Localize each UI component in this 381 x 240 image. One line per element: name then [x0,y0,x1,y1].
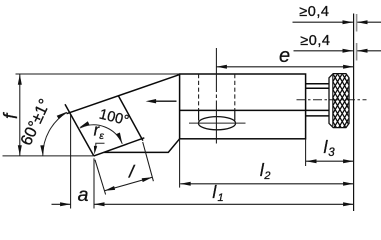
knurled knob outline [329,74,349,128]
hole wall left [198,111,200,121]
svg-text:e: e [279,45,290,67]
gap dim lower line right [357,50,381,52]
100deg arc arrow left [79,121,89,127]
tool body outline [180,74,306,139]
screw axis centerline [297,99,367,101]
cutting edge 60deg [65,104,94,156]
head top slanted edge [67,75,180,114]
body flat edge line [180,109,329,111]
a right extension line [93,158,95,208]
dimension f line [19,74,21,155]
l3 arrow right [343,159,354,163]
dimension l3 line [306,160,354,162]
a left extension line [70,115,72,209]
f arrow up [18,74,22,85]
hole hidden line left [198,74,200,110]
dimension l1 line [94,203,354,205]
r-epsilon arrow [94,146,97,155]
f arrow down [18,145,22,156]
gap dim lower arrow right-pointing [343,49,354,53]
gap dim upper line left [293,21,353,23]
l arrow left [105,186,116,191]
a arrow [60,202,71,206]
60deg arc arrow bottom [40,145,44,156]
r-epsilon leader [96,143,105,147]
screw shank inner top [306,87,329,89]
hole ellipse [198,117,235,130]
knob band edge [332,75,334,126]
l2 arrow right [343,182,354,186]
phantom gap line lower [356,43,358,61]
e arrow left [216,65,227,69]
insert right edge [118,96,143,141]
l extension line at tip [95,160,106,195]
gap dim upper arrow right-pointing [343,20,354,24]
svg-text:a: a [78,184,89,206]
screw shank outer bottom [306,115,329,117]
l1 arrow left [94,202,105,206]
dimension l2 line [180,183,353,185]
gap dim lower line left [294,50,353,52]
l3 arrow left [306,159,317,163]
f top extension line [16,73,180,75]
l arrow right [142,177,153,182]
e arrow right [343,65,354,69]
hole hidden line right [234,74,236,110]
dimension l line [105,177,153,191]
hole wall right [234,111,236,121]
l extension line at heel [143,142,154,181]
dimension e line [216,66,353,68]
gap dim upper line right [357,21,381,23]
body left edge extension [179,139,181,188]
gap dim lower arrow left-pointing [357,49,368,53]
feed direction arrow [156,100,177,102]
hole vertical centerline [215,48,217,144]
vertical end line [353,14,355,212]
angle 60deg arc [43,112,67,156]
l1 arrow right [343,202,354,206]
100deg arc arrow right [116,133,122,144]
phantom gap line upper [356,14,358,32]
gap dim upper arrow left-pointing [357,20,368,24]
body right edge extension [305,139,307,166]
60deg arc arrow top [57,112,67,119]
tip reference line [3,155,94,157]
svg-text:≥0,4: ≥0,4 [299,4,329,20]
hole horizontal centerline [189,122,246,124]
head bottom edge [104,139,180,153]
dimension a tail line [52,203,71,205]
svg-text:≥0,4: ≥0,4 [300,33,330,49]
l2 arrow left [180,182,191,186]
screw shank outer top [306,83,329,85]
angle 100deg arc [80,125,122,144]
insert bottom edge [94,138,145,156]
